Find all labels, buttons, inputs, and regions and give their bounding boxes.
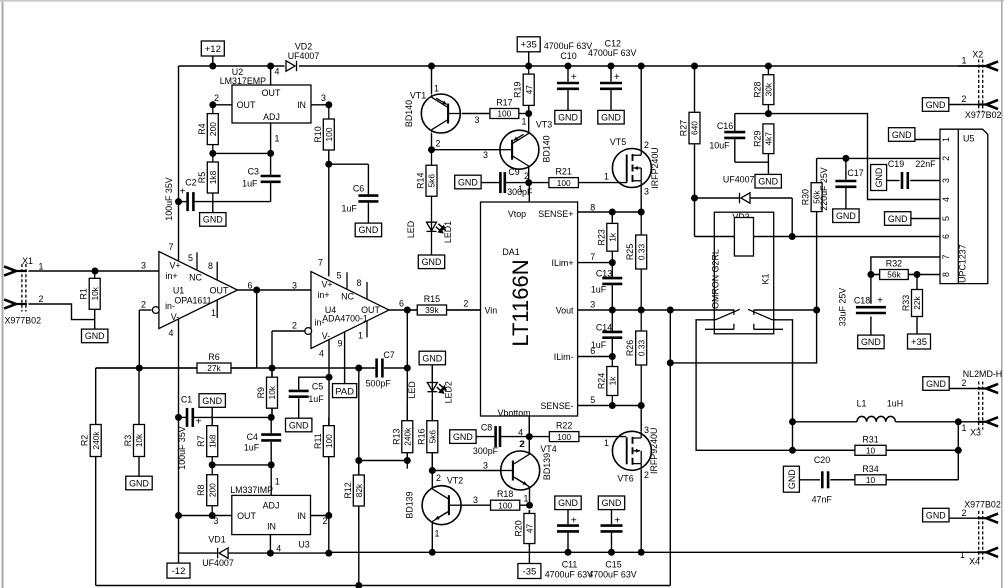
svg-text:82k: 82k (354, 483, 364, 497)
svg-text:1uF: 1uF (308, 394, 324, 404)
wire X3 node vertical (957, 422, 959, 480)
svg-text:in+: in+ (165, 271, 177, 281)
wire vout tap vertical x670 (669, 310, 671, 586)
wire C19 line (886, 180, 899, 182)
wire VT1 collector to node (431, 133, 433, 150)
svg-text:10k: 10k (90, 286, 100, 300)
svg-text:GND: GND (458, 177, 478, 187)
svg-text:UF4007: UF4007 (202, 558, 234, 568)
svg-text:2: 2 (962, 94, 967, 104)
svg-text:X2: X2 (972, 49, 983, 59)
svg-text:2: 2 (519, 439, 524, 449)
svg-text:C15: C15 (605, 560, 621, 570)
capacitor C2 (188, 192, 194, 211)
svg-text:OUT: OUT (262, 88, 281, 98)
svg-text:-12: -12 (172, 566, 186, 577)
svg-text:8: 8 (208, 261, 213, 271)
ground at C9 (455, 175, 481, 189)
svg-text:R9: R9 (256, 387, 266, 398)
svg-text:R33: R33 (901, 295, 911, 311)
resistor R6 (96, 363, 257, 373)
capacitor C5 (289, 391, 309, 397)
resistor R31 (793, 445, 959, 455)
svg-text:OPA1611: OPA1611 (174, 295, 211, 305)
resistor R19 (523, 66, 534, 114)
capacitor C19 (902, 172, 908, 189)
resistor R26 (636, 310, 647, 406)
svg-text:OUT: OUT (237, 511, 256, 521)
ground above C15 (598, 496, 624, 510)
svg-text:100: 100 (324, 434, 334, 448)
ground under C6 (355, 223, 381, 237)
svg-text:R12: R12 (343, 482, 353, 498)
svg-text:BD139: BD139 (405, 491, 415, 518)
wire U5 pin1 (915, 139, 940, 141)
svg-text:200: 200 (207, 483, 217, 497)
svg-text:GND: GND (558, 498, 578, 508)
resistor R30 (811, 183, 822, 212)
wire node y153.4 (213, 152, 271, 154)
svg-text:IN: IN (297, 100, 306, 110)
svg-text:R19: R19 (513, 82, 523, 98)
capacitor C9 (500, 172, 504, 193)
svg-text:SENSE-: SENSE- (540, 401, 573, 411)
wire R34 line (886, 479, 958, 481)
svg-text:7: 7 (169, 242, 174, 252)
wire R9 (271, 368, 273, 380)
svg-text:2: 2 (524, 171, 529, 181)
svg-text:GND: GND (359, 225, 379, 235)
wire SENSE- pin5 (578, 405, 642, 407)
svg-text:1: 1 (524, 493, 529, 503)
wire U2 ADJ pin1 (270, 123, 272, 153)
PAD thermal pad box (333, 384, 357, 398)
svg-text:2: 2 (644, 140, 649, 150)
svg-text:6: 6 (941, 234, 951, 239)
inductor L1 (857, 416, 895, 421)
svg-text:IRFP240U: IRFP240U (650, 147, 660, 188)
ground under LED1 (418, 255, 444, 269)
wire ILim- pin6 (578, 356, 613, 358)
svg-text:ADA4700-1: ADA4700-1 (322, 314, 368, 324)
wire U3 OUT line (179, 515, 232, 517)
resistor R27 (689, 112, 700, 144)
capacitor C10 (557, 83, 579, 89)
wire C12 stub (610, 66, 612, 82)
capacitor C3 (261, 176, 281, 182)
page edge left (2, 0, 4, 588)
svg-text:X4: X4 (969, 557, 980, 567)
svg-text:IN: IN (267, 521, 276, 531)
svg-text:3: 3 (321, 93, 326, 103)
svg-text:GND: GND (874, 168, 884, 188)
svg-text:OUT: OUT (210, 286, 229, 296)
resistor R21 (549, 178, 579, 188)
svg-text:BD140: BD140 (542, 135, 552, 162)
capacitor C8 (496, 426, 500, 447)
relay K1 left contact (705, 309, 740, 329)
arrow VT3 emitter (514, 134, 524, 140)
ground under C18 (858, 335, 884, 349)
svg-text:VT5: VT5 (610, 137, 626, 147)
svg-text:2: 2 (436, 138, 441, 148)
svg-text:1: 1 (960, 550, 965, 560)
ground X4 pin2 (923, 508, 949, 522)
svg-text:1uF: 1uF (342, 204, 358, 214)
svg-text:LT1166N: LT1166N (508, 259, 533, 346)
wire R30 chain (816, 158, 818, 182)
svg-text:C1: C1 (181, 394, 192, 404)
svg-text:6: 6 (248, 281, 253, 291)
wire C8 line (476, 436, 495, 438)
wire feedback node line y368 (96, 367, 198, 369)
op-amp U1 OPA1611 (159, 252, 238, 329)
svg-text:Vin: Vin (485, 305, 498, 315)
svg-text:C11: C11 (562, 560, 578, 570)
resistor R8 (207, 465, 218, 516)
connector X1 (22, 264, 26, 312)
svg-text:C13: C13 (596, 269, 612, 279)
svg-text:1: 1 (358, 331, 363, 341)
svg-text:R20: R20 (513, 520, 523, 536)
wire U2 IN pin3 (311, 104, 329, 106)
capacitor C18 (856, 307, 886, 313)
svg-text:NL2MD-H: NL2MD-H (963, 369, 1002, 379)
wire VT5 drain pin2 (640, 66, 642, 149)
resistor R3 (134, 425, 145, 457)
svg-text:3: 3 (475, 115, 480, 125)
wire C4 (270, 417, 272, 433)
svg-text:C17: C17 (847, 168, 863, 178)
svg-text:R2: R2 (80, 435, 90, 446)
svg-text:8: 8 (357, 278, 362, 288)
svg-text:6: 6 (590, 346, 595, 356)
svg-text:U5: U5 (963, 134, 974, 144)
wire +35 top rail (179, 65, 285, 67)
svg-text:4700uF 63V: 4700uF 63V (588, 570, 636, 580)
svg-text:1uF: 1uF (242, 179, 258, 189)
ground X3 pin2 (923, 377, 949, 391)
svg-text:+35: +35 (911, 337, 927, 348)
svg-text:4: 4 (276, 544, 281, 554)
svg-text:+: + (196, 417, 202, 428)
ground at C20 (783, 466, 799, 492)
svg-text:R17: R17 (496, 98, 512, 108)
svg-text:R22: R22 (556, 421, 572, 431)
svg-text:100uF 35V: 100uF 35V (164, 177, 174, 221)
wire U3 IN line (311, 515, 329, 517)
svg-text:100: 100 (498, 500, 512, 510)
wire VT4 base from VT2 node (432, 470, 501, 472)
net label -35 (518, 564, 541, 579)
svg-text:1: 1 (522, 117, 527, 127)
svg-text:V-: V- (322, 331, 330, 341)
svg-text:GND: GND (422, 257, 442, 267)
svg-text:UPC1237: UPC1237 (958, 244, 968, 283)
svg-text:4: 4 (169, 328, 174, 338)
svg-text:4: 4 (319, 349, 324, 359)
wire U5 pin5 (911, 218, 940, 220)
ground under R5 (200, 213, 226, 227)
wire R27 (694, 66, 696, 112)
svg-text:+12: +12 (205, 44, 221, 55)
wire C18 chain (870, 275, 872, 304)
resistor R4 (207, 105, 218, 154)
ground under C5 (286, 418, 312, 432)
svg-text:1: 1 (962, 423, 967, 433)
wire U5 pin2 line (817, 157, 940, 159)
svg-text:ILim+: ILim+ (552, 258, 574, 268)
svg-text:10k: 10k (134, 433, 144, 447)
svg-text:100: 100 (324, 127, 334, 141)
wire VT2 collector (431, 471, 433, 489)
wire C14 (611, 310, 613, 332)
wire C17 stub (845, 158, 847, 179)
svg-text:C7: C7 (383, 350, 394, 360)
svg-text:4700uF 63V: 4700uF 63V (588, 48, 636, 58)
svg-text:22nF: 22nF (915, 159, 936, 169)
svg-text:5k6: 5k6 (427, 174, 437, 188)
svg-text:X977B02: X977B02 (964, 500, 1001, 510)
net label +35 top (517, 37, 540, 52)
svg-text:+: + (614, 515, 620, 526)
svg-text:IN: IN (297, 511, 306, 521)
capacitor C20 (822, 471, 828, 488)
resistor R24 (607, 357, 618, 406)
svg-text:C20: C20 (814, 455, 830, 465)
wire VT2 base to R18 (462, 504, 491, 506)
wire VT3 emitter down (528, 166, 530, 183)
svg-text:LED1: LED1 (443, 221, 453, 243)
resistor R25 (636, 212, 647, 310)
svg-text:10: 10 (866, 446, 876, 456)
wire U4 pin9 to PAD (344, 327, 346, 384)
svg-text:1k8: 1k8 (208, 170, 218, 184)
resistor R34 (830, 475, 958, 485)
ground under C17 (833, 209, 859, 223)
ground under R1 (82, 329, 108, 343)
resistor R18 (490, 500, 520, 510)
transistor VT3 BD140 (500, 130, 539, 169)
wire LT1166 Vin pin2 (407, 309, 417, 311)
svg-text:L1: L1 (857, 398, 867, 408)
svg-text:R24: R24 (596, 373, 606, 389)
wire C5 stub (299, 377, 329, 389)
svg-text:in-: in- (315, 317, 325, 327)
svg-text:in-: in- (165, 301, 175, 311)
capacitor C6 (358, 196, 378, 202)
svg-text:3: 3 (141, 261, 146, 271)
svg-text:R11: R11 (313, 433, 323, 449)
ground under R3 (126, 476, 152, 490)
resistor R32 (871, 270, 917, 280)
wire node y464.9 (212, 464, 271, 466)
svg-text:UF4007: UF4007 (288, 51, 320, 61)
svg-text:10uF: 10uF (709, 140, 730, 150)
junction dots (209, 63, 216, 70)
wire +35 box stub / R19 (528, 52, 530, 66)
svg-text:+: + (571, 515, 577, 526)
svg-text:LM337IMP: LM337IMP (230, 485, 273, 495)
wire U4 pin4 stub (328, 340, 330, 378)
svg-text:5: 5 (941, 216, 951, 221)
svg-text:Vout: Vout (556, 305, 574, 315)
svg-text:3: 3 (483, 150, 488, 160)
svg-text:3: 3 (214, 516, 219, 526)
svg-text:LED: LED (407, 381, 417, 398)
svg-text:C5: C5 (312, 382, 323, 392)
svg-text:R34: R34 (862, 464, 878, 474)
wire X4 pin2 gnd (948, 517, 979, 519)
svg-text:7: 7 (941, 254, 951, 259)
svg-text:R28: R28 (752, 81, 762, 97)
wire C20 to GND (800, 479, 821, 481)
wire U1 in- route (139, 309, 151, 311)
wire X2 pin2 gnd (948, 104, 979, 106)
svg-text:GND: GND (836, 211, 856, 221)
resistor R33 (912, 290, 923, 317)
svg-text:100uF 35V: 100uF 35V (177, 426, 187, 470)
svg-text:V+: V+ (169, 261, 180, 271)
page edge right (1001, 0, 1003, 588)
resistor R23 (607, 212, 618, 263)
resistor R12 (353, 461, 364, 521)
svg-text:3: 3 (941, 178, 951, 183)
svg-text:X3: X3 (970, 428, 981, 438)
svg-text:V-: V- (171, 312, 179, 322)
wire R2 bottom to feedback rail (95, 457, 97, 586)
wire R33 chain (916, 275, 918, 290)
wire VT1 emitter pin1 (431, 66, 433, 94)
wire C2 node y201.6 (179, 201, 187, 203)
svg-text:R21: R21 (556, 167, 572, 177)
svg-text:100: 100 (497, 109, 511, 119)
svg-text:-35: -35 (523, 566, 537, 577)
svg-text:GND: GND (787, 469, 797, 489)
wire LED2 chain (431, 365, 433, 382)
svg-text:220uF 25V: 220uF 25V (819, 167, 829, 211)
svg-text:2: 2 (214, 93, 219, 103)
svg-text:GND: GND (601, 113, 621, 123)
svg-text:22k: 22k (912, 295, 922, 309)
svg-text:5: 5 (337, 271, 342, 281)
svg-text:GND: GND (422, 353, 442, 363)
svg-text:500pF: 500pF (366, 379, 392, 389)
capacitor C16 (724, 132, 745, 138)
resistor R28 (763, 75, 774, 105)
wire X2 pin1 (958, 65, 979, 67)
capacitor C1 (187, 408, 193, 427)
svg-text:4k7: 4k7 (764, 132, 774, 146)
svg-text:C4: C4 (247, 432, 258, 442)
svg-text:GND: GND (602, 498, 622, 508)
wire U3 pin4 stub (269, 535, 271, 554)
svg-text:1: 1 (275, 477, 280, 487)
arrow VT4 emitter (516, 478, 528, 485)
wire R2 top (95, 368, 97, 425)
svg-text:LED2: LED2 (444, 381, 454, 403)
svg-text:1: 1 (434, 83, 439, 93)
svg-text:2: 2 (941, 156, 951, 161)
svg-text:1: 1 (435, 529, 440, 539)
resistor R5 (207, 153, 218, 201)
net label +35 right (908, 334, 931, 349)
svg-text:R1: R1 (79, 288, 89, 299)
wire R12 chain (358, 368, 360, 461)
svg-text:R23: R23 (596, 229, 606, 245)
svg-text:R8: R8 (196, 484, 206, 495)
wire U2 OUT pin2 (213, 104, 232, 106)
wire R11 vertical (328, 377, 330, 427)
svg-text:VT1: VT1 (410, 91, 426, 101)
wire U1 pin4 to -12 rail (178, 319, 180, 564)
svg-text:1k: 1k (607, 376, 617, 386)
wire U2 pin4 stub (270, 66, 272, 85)
wire R30 node to vout bypass (670, 310, 816, 363)
svg-text:1uF: 1uF (244, 443, 260, 453)
svg-text:DA1: DA1 (502, 247, 519, 257)
svg-text:27k: 27k (207, 363, 221, 373)
svg-text:2: 2 (436, 473, 441, 483)
svg-text:R13: R13 (391, 428, 401, 444)
capacitor C11 (557, 526, 579, 532)
svg-text:VT3: VT3 (536, 119, 552, 129)
svg-text:10k: 10k (267, 385, 277, 399)
transistor VT4 BD139 (501, 451, 540, 490)
svg-text:3: 3 (590, 299, 595, 309)
capacitor C12 (600, 83, 622, 89)
wire C1 line y417.4 (179, 416, 187, 418)
wire C6 branch (329, 163, 369, 165)
svg-text:GND: GND (861, 337, 881, 347)
capacitor C15 (601, 526, 623, 532)
svg-text:2: 2 (962, 508, 967, 518)
svg-text:47: 47 (525, 524, 535, 534)
regulator U2 LM317EMP (232, 85, 311, 123)
wire C9 line (481, 182, 500, 184)
svg-text:5: 5 (590, 395, 595, 405)
svg-text:NC: NC (189, 272, 202, 282)
wire VT4 emitter (529, 487, 531, 505)
wire C16-R29 gnd link (735, 161, 769, 163)
svg-text:NC: NC (341, 291, 354, 301)
wire L1 line (793, 421, 858, 423)
resistor R9 (267, 368, 278, 417)
svg-text:240k: 240k (402, 427, 412, 446)
svg-text:1uH: 1uH (887, 398, 903, 408)
svg-text:+: + (614, 72, 620, 83)
wire C13 (611, 263, 613, 278)
wire R7 gnd link (211, 407, 213, 427)
wire left +12 rail down to U1 pin7 (178, 66, 180, 261)
svg-text:GND: GND (558, 113, 578, 123)
svg-text:33uF 25V: 33uF 25V (838, 288, 848, 327)
protection IC U5 UPC1237 (940, 129, 988, 283)
wire VT4 collector to C8 node (528, 416, 530, 454)
wire LT1166 Vtop pin1 (528, 183, 530, 202)
wire U4 out to Vin node (389, 309, 407, 311)
svg-text:SENSE+: SENSE+ (538, 209, 573, 219)
svg-text:39k: 39k (425, 305, 439, 315)
svg-text:R14: R14 (416, 173, 426, 189)
svg-text:1: 1 (518, 184, 523, 194)
wire U1 pin6 vertical (256, 290, 258, 368)
arrow VT2 emitter (435, 513, 446, 520)
svg-text:K1: K1 (760, 274, 770, 285)
ground under R29 (755, 174, 781, 188)
svg-text:VT6: VT6 (617, 473, 633, 483)
ground at C8 (450, 430, 476, 444)
